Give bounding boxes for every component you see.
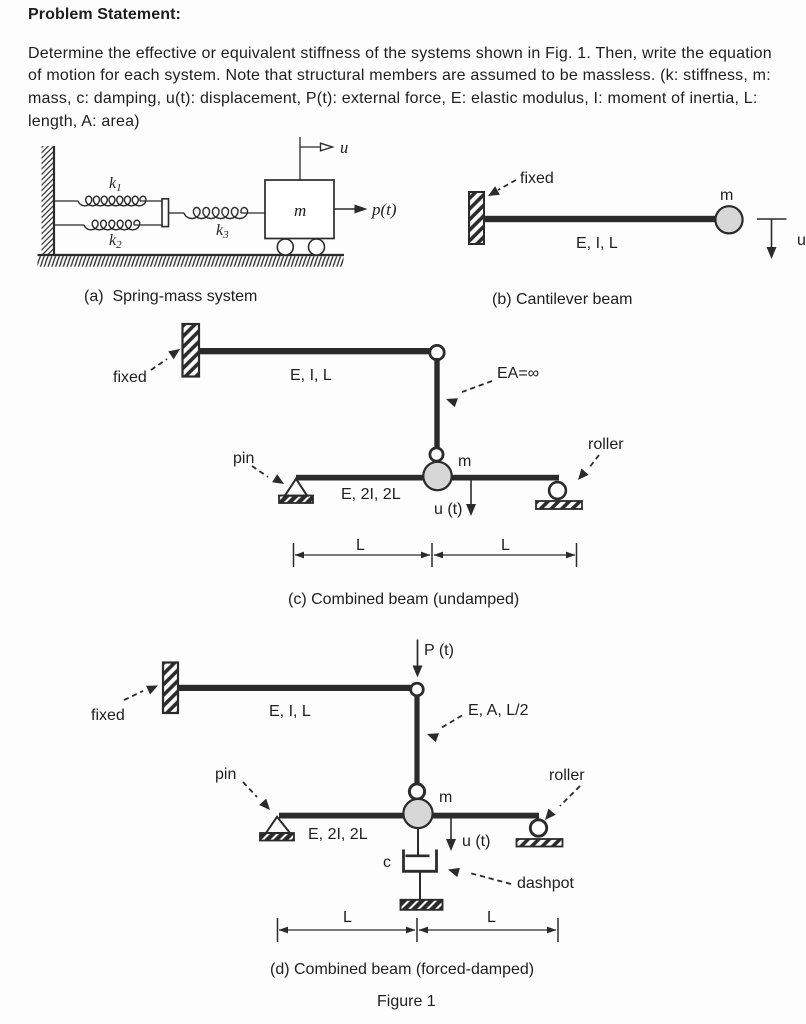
wire wall to spring k1	[54, 200, 78, 202]
svg-text:(b) Cantilever beam: (b) Cantilever beam	[492, 291, 633, 308]
pin support triangle (c)	[285, 479, 307, 496]
svg-text:pin: pin	[233, 450, 254, 467]
arrow u(t) (d)	[446, 819, 456, 852]
svg-text:(d) Combined beam (forced-damp: (d) Combined beam (forced-damped)	[270, 961, 534, 978]
svg-text:fixed: fixed	[520, 170, 554, 187]
mass block m	[265, 180, 334, 239]
svg-text:E, 2I, 2L: E, 2I, 2L	[308, 826, 368, 843]
svg-text:fixed: fixed	[91, 707, 125, 724]
pointer roller (c)	[578, 455, 599, 480]
svg-text:E, I, L: E, I, L	[290, 367, 332, 384]
svg-text:dashpot: dashpot	[517, 875, 574, 892]
svg-text:E, A, L/2: E, A, L/2	[468, 702, 529, 719]
svg-text:roller: roller	[588, 436, 624, 453]
svg-text:u: u	[797, 232, 806, 249]
heading: Problem Statement	[28, 6, 181, 24]
dim tick left (d)	[277, 918, 279, 942]
dashpot cylinder (d)	[404, 850, 437, 872]
figure (a) wall line	[53, 146, 55, 256]
dashpot rod lower (d)	[419, 872, 421, 900]
svg-text:m: m	[439, 789, 452, 806]
pointer dashpot (d)	[448, 868, 511, 884]
wire bar to spring k3	[169, 212, 185, 214]
roller support (c)	[549, 482, 566, 499]
connector bar (parallel springs)	[162, 199, 169, 227]
svg-text:u (t): u (t)	[462, 833, 490, 850]
wire spring k3 to mass	[241, 212, 265, 214]
hinge pin top (c)	[430, 345, 444, 359]
hinge pin bottom (c)	[430, 448, 443, 461]
u reference bar (b)	[757, 218, 787, 220]
svg-text:pin: pin	[215, 766, 236, 783]
dim line L right (c)	[434, 552, 576, 559]
figure (a) floor line	[38, 254, 345, 256]
link E,A,L/2 (d)	[414, 696, 419, 783]
figure (a) wall hatching	[42, 146, 55, 255]
svg-text:EA=∞: EA=∞	[497, 365, 539, 382]
wheel 1	[277, 239, 293, 255]
roller support (d)	[530, 820, 546, 836]
svg-text:k1: k1	[109, 175, 122, 194]
dim tick right (d)	[557, 918, 559, 942]
dashpot piston plate (d)	[406, 854, 430, 857]
dim line L right (d)	[419, 927, 557, 934]
roller base (d)	[517, 839, 563, 847]
dim tick left (c)	[293, 543, 295, 567]
beam E,I,L (d)	[178, 685, 411, 691]
wire spring k1 to bar	[140, 200, 162, 202]
hinge pin bottom (d)	[409, 784, 424, 799]
svg-text:L: L	[501, 537, 510, 554]
spring k2	[84, 220, 140, 230]
spring k3	[184, 207, 248, 218]
figure (c) fixed wall	[183, 324, 200, 377]
svg-text:m: m	[720, 187, 733, 204]
dim tick right (c)	[576, 543, 578, 567]
beam E,2I,2L (d)	[279, 813, 539, 819]
svg-text:m: m	[294, 201, 306, 220]
svg-text:Figure 1: Figure 1	[377, 993, 436, 1010]
pin support base (d)	[260, 833, 294, 841]
arrow u (a)	[300, 143, 333, 151]
wire mass top (displacement reference)	[299, 137, 301, 180]
svg-text:E, 2I, 2L: E, 2I, 2L	[341, 486, 401, 503]
pointer pin (d)	[243, 782, 270, 810]
svg-text:p(t): p(t)	[371, 200, 397, 219]
pointer fixed (c)	[151, 349, 180, 370]
svg-text:L: L	[343, 909, 352, 926]
svg-text:u (t): u (t)	[434, 501, 462, 518]
mass m (d)	[403, 799, 432, 828]
svg-text:L: L	[487, 909, 496, 926]
pointer roller (d)	[545, 786, 580, 820]
dim line L left (d)	[279, 927, 416, 934]
pointer fixed (d)	[124, 686, 158, 701]
svg-text:u: u	[340, 138, 348, 157]
svg-text:(c) Combined beam (undamped): (c) Combined beam (undamped)	[288, 591, 519, 608]
svg-text:P (t): P (t)	[424, 642, 454, 659]
dim tick mid (c)	[431, 543, 433, 567]
pointer fixed (b)	[488, 180, 516, 196]
arrow u(t) (c)	[466, 480, 476, 516]
pin support triangle (d)	[266, 817, 290, 833]
mass m (c)	[423, 462, 451, 490]
figure (d) fixed wall	[163, 663, 178, 714]
svg-text:(a) Spring-mass system: (a) Spring-mass system	[84, 288, 257, 305]
dim tick mid (d)	[416, 918, 418, 942]
roller base (c)	[536, 501, 582, 509]
pointer pin (c)	[252, 466, 284, 484]
beam E,I,L (c)	[199, 348, 431, 354]
figure (b) fixed wall	[469, 192, 484, 244]
wheel 2	[309, 239, 325, 255]
dashpot ground (d)	[401, 900, 443, 910]
pin support base (c)	[279, 496, 313, 504]
arrow P(t) (d)	[413, 640, 423, 678]
pointer EAL2 (d)	[427, 716, 462, 743]
dashpot rod upper (d)	[417, 828, 419, 855]
pointer EA (c)	[446, 381, 492, 407]
svg-text:roller: roller	[549, 767, 585, 784]
svg-text:fixed: fixed	[113, 369, 147, 386]
beam E,2I,2L (c)	[296, 475, 559, 481]
figure (a) floor hatching	[38, 256, 344, 267]
wire spring k2 to bar	[134, 224, 162, 226]
svg-text:E, I, L: E, I, L	[269, 703, 311, 720]
beam E,I,L (b)	[484, 216, 717, 222]
hinge pin top (d)	[411, 683, 424, 696]
wire wall to spring k2	[54, 224, 84, 226]
spring k1	[78, 196, 146, 206]
dim line L left (c)	[295, 552, 431, 559]
svg-text:E, I, L: E, I, L	[576, 235, 618, 252]
svg-text:k3: k3	[216, 222, 229, 241]
svg-text:L: L	[356, 537, 365, 554]
problem statement paragraph	[28, 43, 772, 135]
svg-text:c: c	[383, 854, 391, 871]
rigid link EA (c)	[434, 358, 439, 448]
mass m (b)	[715, 206, 742, 233]
svg-text:m: m	[458, 453, 471, 470]
arrow p(t)	[334, 205, 368, 214]
svg-text:k2: k2	[109, 232, 122, 251]
arrow u (b)	[767, 219, 777, 259]
